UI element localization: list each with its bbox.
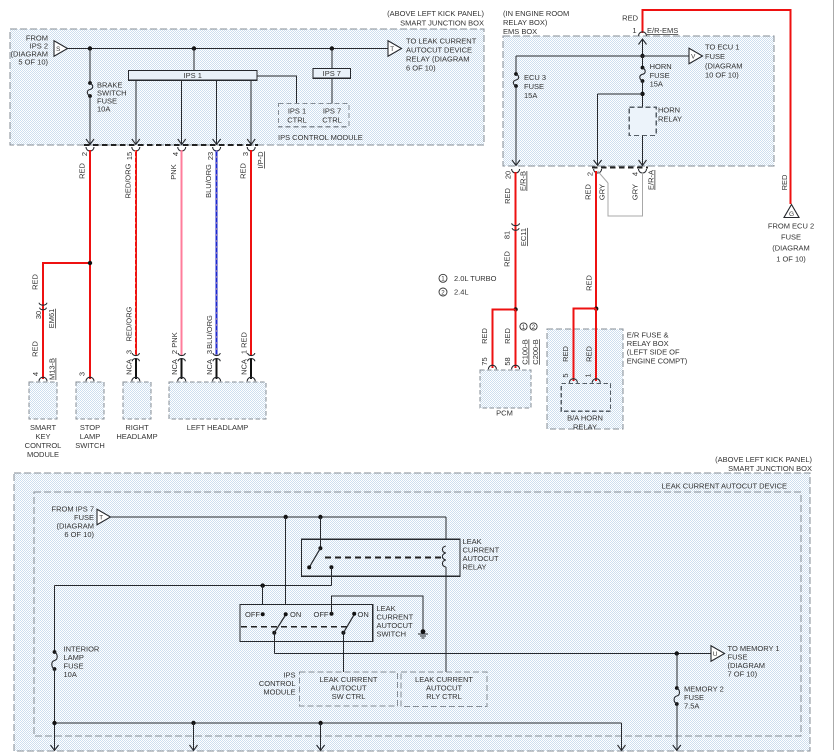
svg-text:IPS 7: IPS 7 [323,107,341,116]
svg-text:RED: RED [240,332,249,348]
svg-text:15A: 15A [650,80,663,89]
svg-text:(DIAGRAM: (DIAGRAM [705,61,743,70]
svg-text:2: 2 [441,289,445,296]
svg-text:RELAY: RELAY [573,423,597,432]
svg-text:STOP: STOP [80,423,100,432]
svg-text:BLU/ORG: BLU/ORG [205,315,214,349]
svg-text:HEADLAMP: HEADLAMP [116,432,157,441]
svg-text:10A: 10A [97,105,110,114]
svg-text:FUSE: FUSE [705,52,725,61]
svg-text:RED: RED [78,163,87,179]
svg-text:IPS CONTROL MODULE: IPS CONTROL MODULE [278,133,363,142]
svg-text:FUSE: FUSE [524,82,544,91]
svg-text:HORN: HORN [650,62,672,71]
svg-text:75: 75 [480,357,489,365]
svg-text:FUSE: FUSE [781,233,801,242]
svg-text:IPS 7: IPS 7 [323,69,341,78]
svg-text:5: 5 [561,373,570,377]
svg-text:NCA: NCA [170,359,179,375]
svg-text:2.4L: 2.4L [454,288,469,297]
svg-text:T: T [390,46,394,53]
svg-text:U: U [713,651,718,658]
svg-text:T: T [99,514,103,521]
svg-text:SMART: SMART [30,423,57,432]
svg-text:10 OF 10): 10 OF 10) [705,71,739,80]
svg-text:ENGINE COMPT): ENGINE COMPT) [627,356,688,365]
svg-text:E/R-A: E/R-A [647,170,656,190]
svg-text:M13-B: M13-B [48,358,57,380]
svg-text:RED/ORG: RED/ORG [123,163,132,198]
svg-text:C100-B: C100-B [521,339,530,364]
svg-text:ON: ON [358,610,369,619]
svg-text:RIGHT: RIGHT [125,423,149,432]
svg-text:TO LEAK CURRENT: TO LEAK CURRENT [406,37,477,46]
svg-text:4: 4 [31,372,40,376]
svg-text:RED: RED [31,341,40,357]
svg-text:GRY: GRY [598,184,607,200]
svg-text:7 OF 10): 7 OF 10) [728,670,758,679]
svg-text:RED/ORG: RED/ORG [124,306,133,341]
svg-text:GRY: GRY [631,184,640,200]
svg-text:2: 2 [586,172,595,176]
svg-text:5 OF 10): 5 OF 10) [18,58,48,67]
svg-text:RED: RED [239,163,248,179]
svg-text:G: G [789,211,794,218]
svg-text:MODULE: MODULE [27,450,59,459]
svg-text:RED: RED [503,328,512,344]
svg-text:6 OF 10): 6 OF 10) [406,64,436,73]
svg-text:RED: RED [561,346,570,362]
svg-text:1: 1 [441,276,445,283]
svg-text:PCM: PCM [496,409,513,418]
svg-text:FUSE: FUSE [650,71,670,80]
svg-text:CONTROL: CONTROL [25,441,62,450]
svg-text:RED: RED [780,174,789,190]
svg-text:3: 3 [124,350,133,354]
svg-text:RELAY: RELAY [658,115,682,124]
svg-text:7.5A: 7.5A [684,702,699,711]
svg-text:E/R-B: E/R-B [519,171,528,191]
svg-text:23: 23 [206,152,215,160]
svg-text:PNK: PNK [170,332,179,347]
svg-text:RED: RED [585,346,594,362]
svg-text:CTRL: CTRL [287,116,307,125]
svg-text:RED: RED [585,275,594,291]
svg-text:2: 2 [80,152,89,156]
svg-text:SWITCH: SWITCH [75,441,105,450]
svg-text:OFF: OFF [314,610,329,619]
svg-text:S: S [56,46,60,53]
svg-text:4: 4 [631,172,640,176]
svg-text:NCA: NCA [205,359,214,375]
svg-text:6 OF 10): 6 OF 10) [64,530,94,539]
svg-text:FROM ECU 2: FROM ECU 2 [768,222,814,231]
svg-text:1: 1 [632,26,636,35]
svg-text:2.0L TURBO: 2.0L TURBO [454,274,497,283]
svg-text:I/P-D: I/P-D [256,151,265,169]
svg-text:AUTOCUT DEVICE: AUTOCUT DEVICE [406,46,472,55]
svg-text:(DIAGRAM: (DIAGRAM [772,244,810,253]
svg-text:EMS BOX: EMS BOX [503,27,537,36]
svg-text:(ABOVE LEFT KICK PANEL): (ABOVE LEFT KICK PANEL) [387,9,484,18]
svg-text:SMART JUNCTION BOX: SMART JUNCTION BOX [728,464,812,473]
svg-text:SW CTRL: SW CTRL [332,692,366,701]
svg-text:SMART JUNCTION BOX: SMART JUNCTION BOX [400,19,484,28]
svg-text:3: 3 [205,350,214,354]
svg-text:IPS 1: IPS 1 [288,107,306,116]
svg-text:B/A HORN: B/A HORN [567,414,603,423]
svg-text:RED: RED [584,184,593,200]
svg-text:IPS 1: IPS 1 [184,71,202,80]
svg-text:3: 3 [241,152,250,156]
svg-text:NCA: NCA [240,359,249,375]
svg-text:BLU/ORG: BLU/ORG [204,164,213,198]
svg-text:EC11: EC11 [519,228,528,246]
svg-text:EM61: EM61 [47,309,56,329]
svg-text:(ABOVE LEFT KICK PANEL): (ABOVE LEFT KICK PANEL) [715,455,812,464]
svg-text:LEFT HEADLAMP: LEFT HEADLAMP [187,423,249,432]
svg-text:NCA: NCA [124,359,133,375]
svg-text:15A: 15A [524,91,537,100]
svg-text:15: 15 [125,152,134,160]
svg-text:CTRL: CTRL [322,116,342,125]
svg-text:E/R-EMS: E/R-EMS [647,26,678,35]
svg-text:81: 81 [503,231,512,239]
svg-text:KEY: KEY [35,432,50,441]
svg-text:20: 20 [504,171,513,179]
svg-text:ECU 3: ECU 3 [524,73,546,82]
svg-text:58: 58 [503,357,512,365]
svg-text:RED: RED [503,251,512,267]
svg-text:MODULE: MODULE [263,688,295,697]
svg-text:LEAK CURRENT AUTOCUT DEVICE: LEAK CURRENT AUTOCUT DEVICE [662,482,787,491]
svg-text:2: 2 [532,324,536,331]
svg-text:RED: RED [31,274,40,290]
svg-text:10A: 10A [64,670,77,679]
svg-text:1: 1 [240,350,249,354]
svg-text:C200-B: C200-B [531,339,540,364]
svg-text:RELAY: RELAY [463,563,487,572]
svg-text:RED: RED [503,188,512,204]
svg-text:3: 3 [78,372,87,376]
svg-text:ON: ON [290,610,301,619]
svg-text:LAMP: LAMP [80,432,100,441]
svg-text:4: 4 [171,152,180,156]
svg-text:SWITCH: SWITCH [377,630,407,639]
svg-text:RED: RED [622,14,638,23]
svg-text:1: 1 [522,324,526,331]
svg-text:2: 2 [170,350,179,354]
svg-text:OFF: OFF [245,610,260,619]
svg-text:30: 30 [34,311,43,319]
svg-text:RELAY BOX): RELAY BOX) [503,18,548,27]
svg-text:RED: RED [480,328,489,344]
svg-text:PNK: PNK [169,164,178,179]
svg-text:1 OF 10): 1 OF 10) [776,255,806,264]
svg-text:TO ECU 1: TO ECU 1 [705,43,739,52]
svg-text:HORN: HORN [658,105,680,114]
svg-text:1: 1 [584,373,593,377]
svg-text:RELAY (DIAGRAM: RELAY (DIAGRAM [406,55,470,64]
svg-text:(IN ENGINE ROOM: (IN ENGINE ROOM [503,9,569,18]
svg-text:RLY CTRL: RLY CTRL [426,692,462,701]
